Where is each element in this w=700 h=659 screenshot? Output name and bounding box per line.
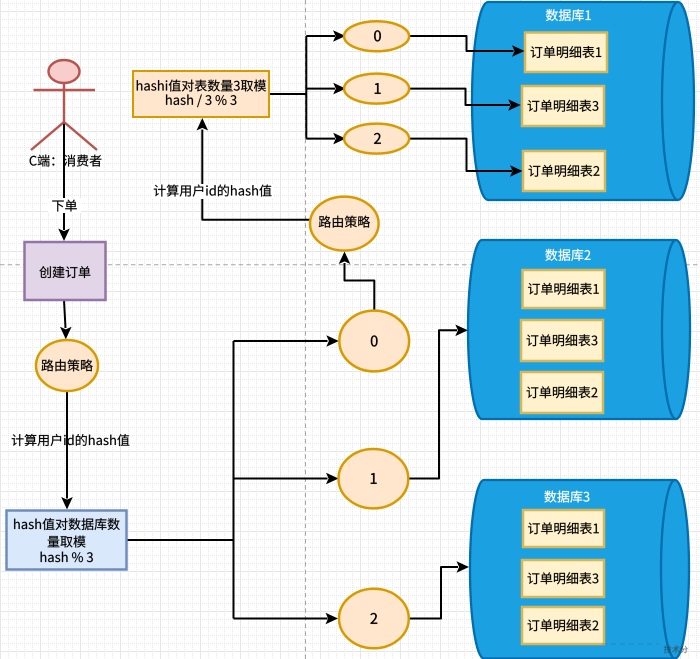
table DB2 订单明细表3	[521, 320, 603, 361]
table DB2 订单明细表1	[523, 270, 605, 308]
page break dashed vertical line	[305, 0, 307, 659]
edge hash box to circles 0 1 2	[127, 335, 339, 624]
text 创建订单	[39, 266, 90, 278]
table DB1 订单明细表2	[523, 151, 605, 191]
ellipse 路由策略 left	[36, 340, 98, 391]
circle 1	[339, 449, 409, 508]
DB1 title 数据库1	[546, 9, 591, 21]
database cylinder DB2	[468, 240, 690, 419]
table DB1 订单明细表1	[525, 33, 607, 73]
actor stick figure C端：消费者	[30, 60, 102, 167]
page break dashed horizontal line	[0, 264, 700, 266]
circle 0	[339, 311, 409, 372]
small ellipse 2	[344, 124, 409, 154]
ellipse 路由策略 middle	[310, 197, 379, 251]
DB3 title 数据库3	[544, 491, 589, 503]
table DB3 订单明细表3	[522, 560, 604, 597]
edge small ellipse 1 to DB1 table3	[409, 89, 521, 111]
database cylinder DB3	[470, 480, 689, 659]
table DB3 订单明细表1	[523, 510, 604, 547]
small ellipse 1	[344, 74, 409, 104]
text lines of hash box	[14, 518, 120, 530]
watermark 技术分	[602, 643, 659, 645]
label 计算用户id的hash值 left	[12, 434, 130, 446]
edge 路由策略 left to hash box	[61, 391, 73, 510]
process box hash值对数据库数量取模	[7, 511, 127, 570]
edge small ellipse 0 to DB1 table1	[409, 36, 525, 57]
process box 创建订单	[25, 242, 106, 300]
table DB3 订单明细表2	[522, 607, 604, 644]
circle 2	[339, 589, 409, 649]
edge 创建订单 to 路由策略 left	[60, 300, 72, 339]
box hashi值对表数量3取模	[133, 71, 269, 117]
database cylinder DB1	[472, 2, 694, 200]
table DB2 订单明细表2	[521, 372, 603, 413]
edge hashi box to small ellipses 0 1 2	[269, 30, 346, 144]
edge 路由策略 middle to hashi box, label 计算用户id的hash值	[152, 118, 310, 220]
edge small ellipse 2 to DB1 table2	[409, 139, 523, 177]
small ellipse 0	[344, 21, 409, 51]
edge circle 1 to DB2	[408, 325, 468, 479]
table DB1 订单明细表3	[522, 86, 604, 126]
edge circle 0 to 路由策略 middle	[339, 252, 375, 311]
edge circle 2 to DB3	[408, 561, 469, 618]
edge actor to 创建订单 with label 下单	[48, 122, 81, 241]
DB2 title 数据库2	[545, 249, 590, 261]
